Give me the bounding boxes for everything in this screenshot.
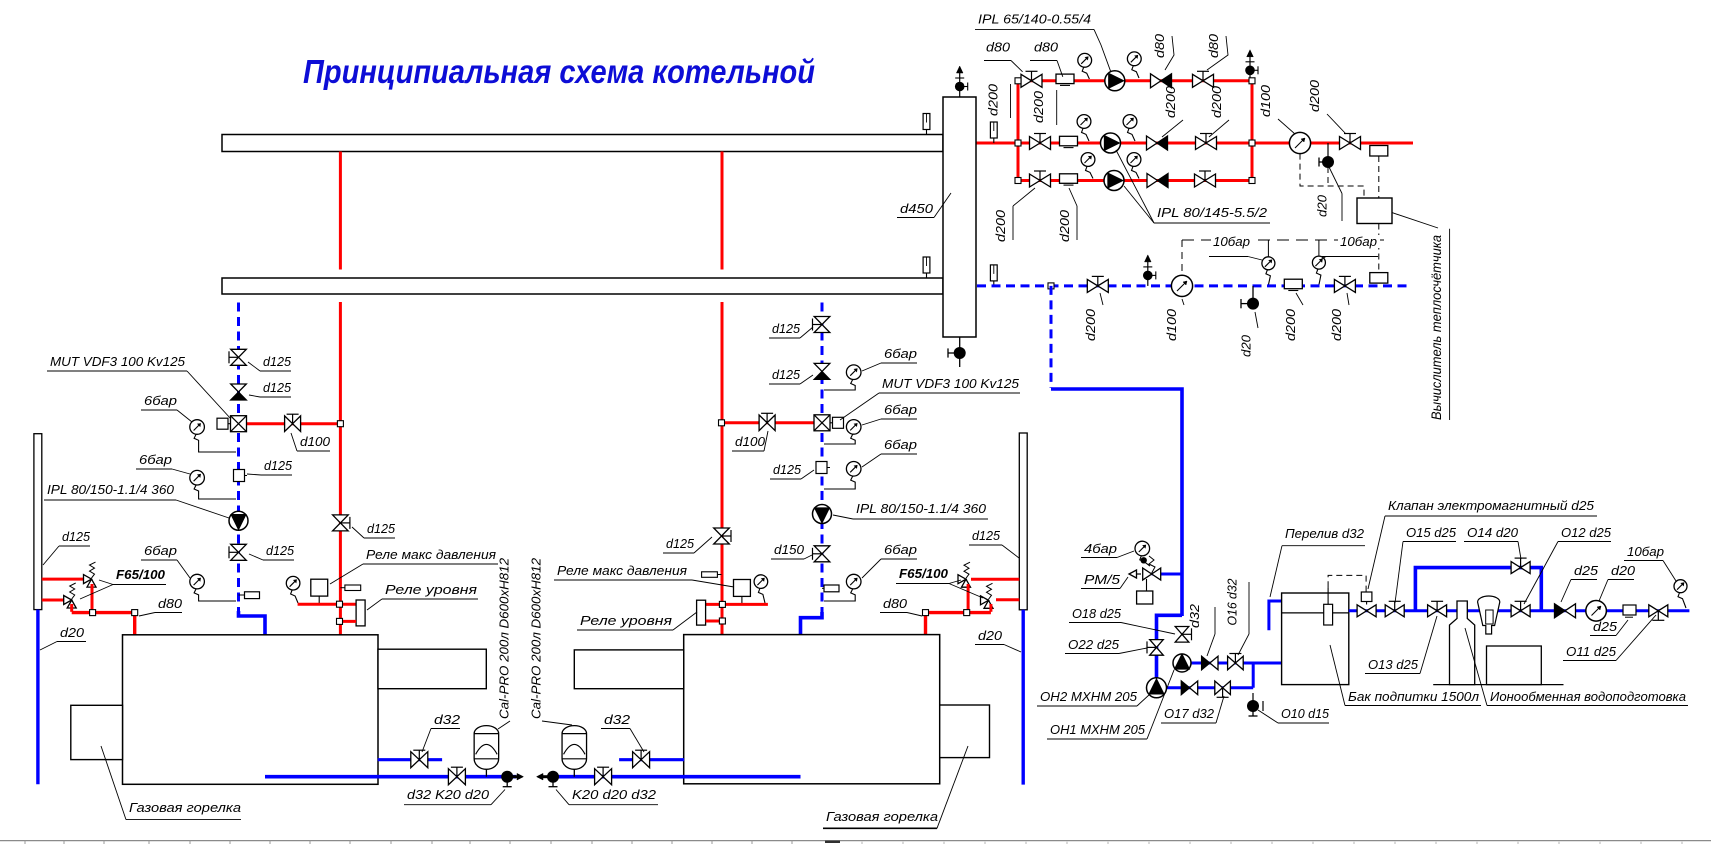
pump IPL 80/150 boiler1 xyxy=(229,511,248,530)
right discharge stack xyxy=(1019,433,1027,610)
valve d32 bottom b1 xyxy=(448,769,465,785)
sensor d125 boiler1 xyxy=(234,470,245,482)
gauge 10bar end xyxy=(1674,580,1687,593)
gauge 6bar boiler2 d xyxy=(846,574,861,589)
solenoid valve d25 xyxy=(1357,605,1376,617)
svg-text:d200: d200 xyxy=(986,83,1001,116)
boiler1 supply riser red xyxy=(339,152,342,270)
pump OH2 MXHM 205 xyxy=(1173,654,1191,672)
svg-text:d80: d80 xyxy=(158,596,183,611)
red safety stub A b2 xyxy=(971,578,1019,581)
red safety stub B b2 xyxy=(996,598,1019,601)
svg-text:d100: d100 xyxy=(735,434,766,449)
svg-text:Cal-PRO 200л D600хН812: Cal-PRO 200л D600хН812 xyxy=(529,557,544,719)
gauge 6bar boiler2 b xyxy=(846,420,861,435)
svg-text:d200: d200 xyxy=(1031,90,1046,123)
thermowell on return bar xyxy=(926,273,928,278)
vent on right manifold xyxy=(1249,57,1251,81)
svg-text:d200: d200 xyxy=(1283,308,1298,341)
svg-text:Cal-PRO 200л D600хН812: Cal-PRO 200л D600хН812 xyxy=(497,557,512,719)
left discharge stack xyxy=(34,434,42,610)
gauge 6bar boiler2 c xyxy=(846,462,861,477)
node boiler1 relay a xyxy=(337,601,343,607)
pressure relay box boiler1 xyxy=(311,579,328,596)
svg-text:d200: d200 xyxy=(1057,209,1072,242)
svg-text:d25: d25 xyxy=(1593,619,1618,634)
svg-text:d125: d125 xyxy=(772,367,801,382)
valve O11 d25 xyxy=(1649,605,1668,617)
branch pipe to pump OH1 xyxy=(1157,615,1183,688)
svg-text:6бар: 6бар xyxy=(884,402,917,417)
node red riser boiler2 xyxy=(719,420,725,426)
pump IPL 80/150 boiler2 xyxy=(813,505,832,524)
valve d80 row1 right xyxy=(1193,74,1214,87)
svg-text:d20: d20 xyxy=(1315,194,1330,217)
gauge max pressure boiler1 xyxy=(286,576,300,590)
thermowell on blue main xyxy=(993,281,995,286)
thermowell on supply bar xyxy=(926,130,928,135)
valve d125 red riser boiler2 xyxy=(714,528,730,544)
valve d125 boiler1 low xyxy=(231,544,247,560)
svg-text:d20: d20 xyxy=(1239,334,1254,357)
check valve d125 boiler1 xyxy=(231,384,247,400)
svg-text:d20: d20 xyxy=(1611,563,1636,578)
flow meter d100 return xyxy=(1171,275,1192,296)
svg-text:6бар: 6бар xyxy=(139,452,172,467)
valve d125 red riser boiler1 xyxy=(333,515,349,531)
svg-text:d32: d32 xyxy=(434,712,461,727)
valve O13 d25 xyxy=(1428,605,1447,617)
svg-text:MUT VDF3 100 Kv125: MUT VDF3 100 Kv125 xyxy=(50,354,186,369)
pressure test line 10bar dashed xyxy=(1182,239,1390,241)
valve d80 row1 xyxy=(1021,74,1042,87)
pipe level stub boiler1 xyxy=(340,620,356,623)
svg-text:О14 d20: О14 d20 xyxy=(1467,525,1519,540)
pipe to PM/5 valve xyxy=(1152,573,1182,576)
gauge 4bar xyxy=(1135,541,1150,556)
svg-text:О16 d32: О16 d32 xyxy=(1225,578,1240,626)
safety valve F65/100 b1 b xyxy=(64,596,72,605)
level relay boiler1 xyxy=(356,600,365,626)
sensor boiler2 low xyxy=(824,585,839,592)
svg-text:d125: d125 xyxy=(666,536,695,551)
filter row2 xyxy=(1060,136,1078,146)
filter on return xyxy=(1284,279,1302,289)
red safety stub A b1 xyxy=(42,578,84,581)
node boiler1 relay b xyxy=(337,618,343,624)
pipe red three-way to riser xyxy=(247,422,340,425)
valve d100 boiler1 xyxy=(285,416,301,432)
svg-text:6бар: 6бар xyxy=(884,542,917,557)
svg-text:d125: d125 xyxy=(62,529,91,544)
separator vessel d450 xyxy=(943,97,976,337)
blue return main dashed xyxy=(977,284,1412,287)
svg-text:6бар: 6бар xyxy=(884,437,917,452)
svg-text:d125: d125 xyxy=(972,528,1001,543)
filter row3 xyxy=(1060,174,1078,184)
blue d20 pipe right xyxy=(1022,610,1025,785)
svg-text:d32: d32 xyxy=(1187,603,1202,628)
water meter d20 xyxy=(1586,601,1607,622)
heat meter wiring to return xyxy=(1378,224,1380,273)
flow sensor box return xyxy=(1370,273,1388,284)
bottom frame line xyxy=(0,840,1711,842)
gauge row1 left xyxy=(1078,53,1092,67)
gauge 6bar boiler2 a xyxy=(846,365,861,380)
blue d20 pipe left xyxy=(36,610,39,785)
gauge row1 right xyxy=(1127,52,1141,66)
svg-text:d80: d80 xyxy=(1034,40,1059,55)
check valve d32 branch A xyxy=(1202,656,1218,670)
svg-text:d20: d20 xyxy=(60,625,85,640)
thermowell red riser boiler2 xyxy=(702,572,718,578)
filter funnel xyxy=(1478,596,1500,634)
drain K20 b2 xyxy=(547,771,559,783)
boiler 2 body xyxy=(684,635,940,784)
boiler2 supply riser red xyxy=(721,152,724,270)
svg-text:d200: d200 xyxy=(1083,308,1098,341)
svg-text:d25: d25 xyxy=(1574,563,1599,578)
svg-text:О12 d25: О12 d25 xyxy=(1561,525,1612,540)
drain K20 b1 xyxy=(501,771,513,783)
boiler 2 flue box xyxy=(574,650,683,689)
svg-text:d200: d200 xyxy=(993,209,1008,242)
valve O17 d32 xyxy=(1215,681,1231,695)
svg-text:d80: d80 xyxy=(883,596,908,611)
valve O18 d25 xyxy=(1175,627,1189,643)
gauge 6bar boiler1 a xyxy=(190,420,205,435)
valve d32 stub b2 xyxy=(633,752,650,768)
tank overflow pipe xyxy=(1269,601,1282,630)
valve d200 return xyxy=(1087,279,1108,292)
svg-text:6бар: 6бар xyxy=(144,543,177,558)
svg-text:d450: d450 xyxy=(900,201,934,216)
svg-text:IPL 80/145-5.5/2: IPL 80/145-5.5/2 xyxy=(1157,205,1268,220)
svg-text:Бак подпитки 1500л: Бак подпитки 1500л xyxy=(1348,689,1480,704)
treatment main pipe xyxy=(1349,609,1690,612)
label 10bar b xyxy=(1338,235,1380,248)
boiler2 vent stub d32 xyxy=(619,758,684,761)
label computer leader xyxy=(1392,213,1438,228)
svg-text:4бар: 4бар xyxy=(1084,541,1117,556)
boiler 1 flue box xyxy=(378,649,486,689)
check valve d32 branch B xyxy=(1181,681,1197,695)
svg-text:10бар: 10бар xyxy=(1627,544,1664,559)
svg-text:d200: d200 xyxy=(1329,308,1344,341)
valve d125 boiler2 top xyxy=(814,317,830,333)
makeup pipe dashed drop xyxy=(1050,286,1053,388)
sensor d125 boiler2 xyxy=(816,462,827,474)
pump IPL 80/145-5.5/2 no3 xyxy=(1104,171,1124,191)
pipe level stub boiler2 xyxy=(706,620,722,623)
makeup pipe solid xyxy=(1051,389,1182,616)
valve O12 d25 xyxy=(1511,605,1530,617)
node d80 b1 a xyxy=(90,610,96,616)
svg-text:Реле уровня: Реле уровня xyxy=(385,582,477,597)
sensor boiler1 low xyxy=(245,592,260,599)
svg-text:6бар: 6бар xyxy=(884,346,917,361)
svg-text:Перелив d32: Перелив d32 xyxy=(1285,526,1365,541)
pump row 2 pipe xyxy=(1018,142,1252,145)
svg-text:MUT VDF3 100 Kv125: MUT VDF3 100 Kv125 xyxy=(882,376,1020,391)
PM/5 discharge arrow xyxy=(1137,573,1142,575)
safety valve F65/100 b1 a xyxy=(84,575,92,584)
boiler1 return riser blue dashed xyxy=(237,303,240,612)
svg-text:Реле макс давления: Реле макс давления xyxy=(557,563,687,578)
svg-text:d32 K20 d20: d32 K20 d20 xyxy=(407,787,490,802)
pump group manifold right xyxy=(1251,81,1254,181)
red d80 pipe b1 xyxy=(72,611,135,614)
gauge 10bar b xyxy=(1318,240,1320,256)
svg-text:d125: d125 xyxy=(264,458,293,473)
svg-text:Реле уровня: Реле уровня xyxy=(580,613,672,628)
node boiler2 relay b xyxy=(719,618,725,624)
drain O10 d15 xyxy=(1247,700,1259,712)
svg-text:d200: d200 xyxy=(1209,85,1224,118)
drain d20 on return xyxy=(1247,298,1259,310)
valve d200 supply outlet xyxy=(1340,137,1361,150)
safety valve F65/100 b2 a xyxy=(958,575,966,584)
pipe red main from separator xyxy=(976,142,1018,145)
sensor d25 xyxy=(1623,605,1636,615)
svg-text:6бар: 6бар xyxy=(144,393,177,408)
heat computer box xyxy=(1357,198,1392,224)
svg-text:IPL 80/150-1.1/4 360: IPL 80/150-1.1/4 360 xyxy=(47,482,175,497)
boiler 1 burner xyxy=(71,705,123,759)
gauge 6bar boiler1 b xyxy=(190,470,205,485)
heat meter wiring dashed xyxy=(1300,154,1364,198)
flow meter d100 supply xyxy=(1289,132,1310,153)
check valve feed xyxy=(1555,604,1576,618)
pressure relay box boiler2 xyxy=(734,580,751,597)
filter row1 xyxy=(1056,74,1074,84)
pipe relay red boiler2 xyxy=(706,603,768,606)
check valve d125 boiler2 xyxy=(814,363,830,379)
check valve row2 xyxy=(1147,136,1168,150)
svg-text:F65/100: F65/100 xyxy=(116,567,166,582)
pump group manifold left xyxy=(1017,81,1020,181)
makeup tank 1500l xyxy=(1282,593,1349,685)
pipe relay red boiler1 xyxy=(298,603,357,606)
svg-text:d125: d125 xyxy=(263,354,292,369)
PM/5 box xyxy=(1137,591,1153,604)
svg-text:d80: d80 xyxy=(986,40,1011,55)
pump OH1 MXHM 205 xyxy=(1147,678,1167,698)
supply collector bar xyxy=(222,135,943,152)
three-way valve MUT VDF3 boiler1 xyxy=(231,416,247,432)
boiler2 bottom pipe xyxy=(553,775,801,779)
pump IPL 65/140-0.55/4 xyxy=(1105,71,1125,91)
svg-text:F65/100: F65/100 xyxy=(899,566,949,581)
boiler1 return elbow xyxy=(239,611,266,777)
check valve row1 xyxy=(1151,74,1172,88)
svg-text:d125: d125 xyxy=(367,521,396,536)
valve d200 row3 xyxy=(1030,174,1051,187)
tank float valve xyxy=(1324,604,1333,625)
gauge row2 right xyxy=(1123,115,1137,129)
svg-text:d125: d125 xyxy=(772,321,801,336)
svg-text:d100: d100 xyxy=(1258,84,1273,117)
svg-text:d125: d125 xyxy=(266,543,295,558)
return collector bar xyxy=(222,278,943,294)
pump IPL 80/145-5.5/2 no2 xyxy=(1101,133,1121,153)
valve O22 d25 xyxy=(1150,640,1164,656)
boiler 1 body xyxy=(123,635,379,785)
expansion vessel Cal-PRO b1 xyxy=(474,726,499,770)
separator vent xyxy=(959,73,961,97)
boiler1 bottom pipe xyxy=(265,775,516,779)
svg-text:РМ/5: РМ/5 xyxy=(1084,572,1121,587)
salt tank box xyxy=(1487,646,1542,685)
svg-text:Реле макс давления: Реле макс давления xyxy=(366,547,496,562)
gauge row3 right xyxy=(1127,153,1141,167)
svg-text:d80: d80 xyxy=(1152,33,1167,58)
valve d100 boiler2 xyxy=(759,415,775,431)
gauge row2 left xyxy=(1077,115,1091,129)
boiler2 return riser blue dashed xyxy=(821,303,824,613)
svg-text:K20 d20 d32: K20 d20 d32 xyxy=(572,787,657,802)
svg-text:IPL 80/150-1.1/4 360: IPL 80/150-1.1/4 360 xyxy=(856,501,987,516)
check valve row3 xyxy=(1147,174,1168,188)
boiler 2 burner xyxy=(940,705,990,758)
red pipe safety vertical b2 xyxy=(967,584,970,612)
svg-text:d100: d100 xyxy=(1164,308,1179,341)
gauge row3 left xyxy=(1081,153,1095,167)
svg-text:О18 d25: О18 d25 xyxy=(1072,606,1122,621)
boiler1 vent stub d32 xyxy=(378,758,442,761)
valve d150 boiler2 xyxy=(814,546,830,562)
svg-text:Ионообменная водоподготовка: Ионообменная водоподготовка xyxy=(1490,689,1686,704)
svg-text:О13 d25: О13 d25 xyxy=(1368,657,1419,672)
boiler2 return elbow xyxy=(801,612,823,777)
label 10bar a xyxy=(1211,235,1253,248)
manifold nodes xyxy=(1015,78,1021,84)
thermowell on red main xyxy=(993,138,995,143)
svg-text:О10 d15: О10 d15 xyxy=(1281,706,1330,721)
pipe pump OH2 suction xyxy=(1182,662,1255,665)
svg-text:10бар: 10бар xyxy=(1340,234,1377,249)
svg-text:d125: d125 xyxy=(773,462,802,477)
svg-text:d150: d150 xyxy=(774,542,805,557)
svg-text:d20: d20 xyxy=(978,628,1003,643)
node on return main xyxy=(1048,283,1054,289)
red d80 pipe b2 xyxy=(926,611,991,614)
gauge max pressure boiler2 xyxy=(754,575,768,589)
gauge 6bar boiler1 c xyxy=(190,574,205,589)
node d80 b2 a xyxy=(923,610,929,616)
pump row 1 pipe xyxy=(1018,79,1252,82)
svg-text:О15 d25: О15 d25 xyxy=(1406,525,1457,540)
pipe red three-way to riser b2 xyxy=(722,421,814,424)
valve d20 bottom b2 xyxy=(595,769,612,785)
svg-text:d32: d32 xyxy=(604,712,631,727)
pipe junction to tank xyxy=(1253,663,1281,688)
node d80 b1 b xyxy=(132,610,138,616)
thermowell red riser boiler1 xyxy=(345,585,361,591)
node boiler2 relay a xyxy=(719,601,725,607)
svg-text:d100: d100 xyxy=(300,434,331,449)
svg-text:Принципиальная схема котельной: Принципиальная схема котельной xyxy=(303,53,815,90)
svg-text:d125: d125 xyxy=(263,380,292,395)
valve d200 row2 xyxy=(1030,137,1051,150)
svg-text:Газовая горелка: Газовая горелка xyxy=(129,800,241,815)
gauge 10bar a xyxy=(1267,240,1269,256)
drain d20 on supply xyxy=(1322,156,1334,168)
svg-text:d200: d200 xyxy=(1163,85,1178,118)
safety valve F65/100 b2 b xyxy=(981,596,989,605)
svg-text:О11 d25: О11 d25 xyxy=(1566,644,1617,659)
valve d32 stub b1 xyxy=(411,752,428,768)
valve O16 d32 xyxy=(1228,656,1244,670)
valve d125 boiler1 top xyxy=(231,349,247,365)
node red riser boiler1 xyxy=(337,421,343,427)
ion exchange column xyxy=(1450,601,1475,685)
node d80 b2 b xyxy=(964,610,970,616)
level relay boiler2 xyxy=(697,600,706,625)
pipe pump OH1 suction xyxy=(1157,686,1254,689)
valve O14 d20 bypass xyxy=(1511,562,1530,574)
svg-text:ОН1 МХНМ 205: ОН1 МХНМ 205 xyxy=(1050,722,1146,737)
expansion vessel Cal-PRO b2 xyxy=(562,726,587,770)
three-way valve MUT VDF3 boiler2 xyxy=(814,415,830,431)
svg-text:ОН2 МХНМ 205: ОН2 МХНМ 205 xyxy=(1040,689,1138,704)
valve d200 return b xyxy=(1334,279,1355,292)
svg-text:Клапан электромагнитный d25: Клапан электромагнитный d25 xyxy=(1388,498,1595,513)
svg-text:d200: d200 xyxy=(1307,79,1322,112)
red pipe safety vertical b1 xyxy=(91,584,94,612)
svg-text:IPL 65/140-0.55/4: IPL 65/140-0.55/4 xyxy=(978,12,1091,27)
red safety stub B b1 xyxy=(42,599,64,602)
float control dashed xyxy=(1328,575,1366,592)
svg-text:d80: d80 xyxy=(1206,33,1221,58)
svg-text:О22 d25: О22 d25 xyxy=(1068,637,1120,652)
valve d200 row3 right xyxy=(1195,174,1216,187)
treatment platform xyxy=(1433,684,1563,686)
separator drain xyxy=(959,337,961,367)
flow sensor box supply xyxy=(1370,146,1388,157)
svg-text:Газовая горелка: Газовая горелка xyxy=(826,809,938,824)
red outlet pipe xyxy=(1252,142,1413,145)
svg-text:10бар: 10бар xyxy=(1213,234,1250,249)
pump row 3 pipe xyxy=(1018,179,1252,182)
air vent on return xyxy=(1147,262,1149,286)
valve O15 d25 xyxy=(1385,605,1404,617)
svg-text:О17 d32: О17 d32 xyxy=(1164,706,1215,721)
relief valve PM/5 xyxy=(1143,568,1161,580)
valve d200 row2 right xyxy=(1196,137,1217,150)
treatment bypass pipe xyxy=(1415,568,1541,611)
svg-text:Вычислитель теплосчётчика: Вычислитель теплосчётчика xyxy=(1429,235,1444,420)
